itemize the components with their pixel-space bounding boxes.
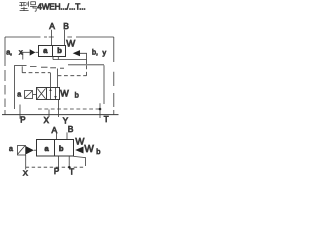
solenoid diagonal [25, 91, 32, 98]
svg-text:T: T [104, 115, 109, 124]
svg-text:4WEH.../...T...: 4WEH.../...T... [37, 2, 85, 11]
svg-text:b: b [96, 147, 100, 156]
parallel arrows cell [51, 88, 56, 99]
svg-text:b: b [59, 144, 64, 153]
svg-text:W: W [66, 39, 75, 50]
svg-text:B: B [63, 21, 69, 31]
pilot valve port lines up [50, 69, 57, 88]
svg-text:B: B [68, 124, 74, 134]
svg-text:b: b [75, 91, 79, 100]
inner box right edge [103, 65, 105, 104]
T port stub [68, 156, 70, 167]
valve box a|b [37, 140, 74, 157]
junction dot [68, 166, 70, 168]
svg-text:W: W [84, 144, 94, 155]
wire B line [66, 132, 68, 139]
Y drain line [58, 100, 60, 118]
main valve box a|b [39, 46, 66, 57]
dashed drain option line [38, 108, 100, 110]
P port stub [58, 156, 60, 169]
svg-text:a: a [9, 146, 13, 153]
wire B line [64, 30, 66, 46]
dashed pilot line right [58, 65, 87, 76]
pilot triangle right [73, 50, 80, 56]
wire triangle tip to box [36, 51, 39, 53]
svg-text:X: X [44, 116, 50, 125]
svg-text:y: y [103, 48, 107, 57]
wire A line [56, 133, 58, 139]
subplate outer chain box: left edge [4, 37, 6, 115]
svg-text:P: P [54, 167, 59, 176]
wire a,x drop vertical [22, 52, 24, 59]
svg-text:X: X [23, 169, 28, 178]
svg-text:a,: a, [6, 47, 12, 56]
crossed arrows cell [37, 89, 45, 99]
svg-text:W: W [75, 136, 84, 147]
X supply line [48, 110, 50, 118]
wire right pilot elbow [80, 53, 87, 64]
pilot valve body [37, 88, 60, 100]
pilot triangle right [75, 147, 83, 154]
P port line [19, 105, 21, 119]
junction dot T [99, 108, 102, 111]
svg-text:b: b [57, 46, 62, 55]
dashed X line [26, 166, 86, 168]
svg-text:W: W [60, 89, 69, 99]
subplate outer chain box: top edge [5, 36, 114, 38]
svg-text:T: T [69, 168, 74, 177]
wire solenoid to valve [33, 94, 37, 96]
inner box left edge [14, 65, 16, 109]
title hanzi HAO (number) [30, 2, 37, 12]
svg-text:P: P [20, 115, 25, 124]
solenoid pilot triangle [26, 146, 34, 154]
main valve bottom stubs [53, 56, 58, 60]
subplate outer chain box: right edge [113, 37, 115, 115]
dashed pilot line left [21, 66, 23, 72]
inner box top edge [15, 65, 27, 67]
solenoid box [18, 146, 26, 156]
pilot solenoid box [25, 91, 33, 99]
svg-text:A: A [49, 21, 55, 31]
svg-text:b,: b, [92, 48, 98, 57]
solenoid diagonal [18, 146, 25, 155]
svg-text:a: a [17, 92, 21, 99]
wire to valve [34, 149, 37, 151]
baseline bottom line [2, 114, 119, 116]
pilot triangle left (hydraulic pilot) [30, 49, 36, 55]
title hanzi XING (model) [19, 1, 28, 10]
T port line [99, 103, 101, 118]
wire collector line [53, 59, 87, 61]
wire from a,x to pilot triangle [21, 51, 30, 53]
X pilot line down [25, 155, 27, 170]
bracket under spring [74, 156, 86, 166]
wire A line [51, 30, 53, 46]
